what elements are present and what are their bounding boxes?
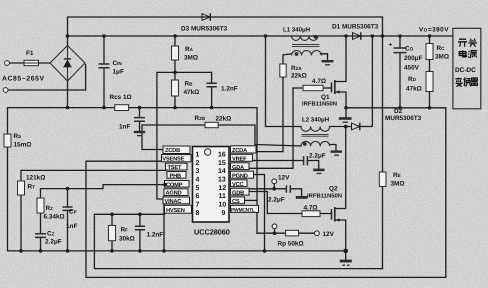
node Cz bottom on ground rail <box>39 249 43 253</box>
node pin label HVSEN <box>165 205 192 214</box>
inductor L1 primary winding <box>292 36 320 46</box>
node L1 primary polarity dot <box>314 35 318 39</box>
node Rb bottom on rail <box>173 106 177 110</box>
wire Q2 drain up to L2 D2 node <box>335 127 346 209</box>
resistor R1 <box>18 181 25 195</box>
wire VCC line with 12V tap and 2.2uF cap to ground <box>247 189 302 196</box>
wire 1.2nF HVSEN cap leads <box>139 214 141 251</box>
wire right power return line <box>346 107 446 109</box>
svg-text:ZCDA: ZCDA <box>232 148 247 154</box>
svg-text:AC85~265V: AC85~265V <box>2 76 45 83</box>
wire Rf leads <box>111 214 113 251</box>
wire Re column from bus to HVSEN loop <box>382 36 384 269</box>
node pin label AGND <box>164 189 188 197</box>
capacitor 2.2uF VCC <box>286 185 290 193</box>
svg-text:+: + <box>389 42 393 49</box>
svg-text:PHB: PHB <box>170 173 182 179</box>
resistor Rp <box>286 230 299 236</box>
svg-text:MUR5306T3: MUR5306T3 <box>385 115 422 122</box>
ground Q1 source <box>339 119 352 123</box>
transistor Q2 <box>332 207 340 222</box>
capacitor Co <box>394 48 407 53</box>
node R1 bottom on ground rail <box>19 249 23 253</box>
svg-text:Q1: Q1 <box>321 94 330 101</box>
wire D3 bypass top bus from bridge top to output node <box>68 17 383 46</box>
svg-text:1: 1 <box>196 151 200 158</box>
svg-text:11: 11 <box>219 193 226 200</box>
svg-text:47kΩ: 47kΩ <box>406 86 422 93</box>
wire Cp leads <box>67 189 69 251</box>
capacitor 1.2nF HVSEN <box>135 226 145 230</box>
ground L1 zcd winding <box>322 61 334 65</box>
diode D1 <box>353 32 361 40</box>
node Rc top on bus <box>428 34 432 38</box>
wire TSET R1 line <box>21 170 166 251</box>
value label DC-DC converter chinese text guan <box>468 39 477 47</box>
resistor Rc <box>426 44 433 60</box>
node Rd bottom on power return <box>428 106 432 110</box>
wire VSENSE to bottom sense loop via output return <box>86 108 446 278</box>
wire Q2 source down to ground rail end <box>335 220 346 251</box>
node pin label CS <box>231 197 245 205</box>
node pin label TSET <box>166 163 188 171</box>
node L1 zcd polarity dot <box>295 52 299 56</box>
svg-text:RB: RB <box>185 81 194 88</box>
svg-text:22kΩ: 22kΩ <box>216 116 232 123</box>
node pin label PHB <box>167 172 186 180</box>
box DC-DC converter <box>453 28 481 109</box>
wire PGND drop to ground rail <box>254 175 265 251</box>
svg-text:14: 14 <box>218 168 226 175</box>
wire Co leads <box>399 36 401 108</box>
node Ra Rb divider junction <box>173 71 177 75</box>
ground VREF cap <box>313 170 324 174</box>
wire Q1 source ground stub <box>345 108 347 117</box>
node L2 zcd polarity dot <box>303 142 307 146</box>
wire 12V terminal stub to VCC <box>273 184 275 189</box>
svg-text:RT: RT <box>28 184 36 191</box>
svg-text:RZB: RZB <box>195 115 206 122</box>
wire CS pin stub <box>245 199 258 201</box>
bridge rectifier <box>50 46 85 82</box>
resistor Rb <box>172 80 179 96</box>
node Co bottom on power return <box>398 106 402 110</box>
svg-text:5: 5 <box>196 185 200 192</box>
svg-text:RS: RS <box>14 133 22 140</box>
capacitor 1nF CS filter <box>134 118 145 122</box>
resistor Rf <box>109 225 116 240</box>
node D2 cathode on bus <box>371 34 375 38</box>
svg-text:3MΩ: 3MΩ <box>391 181 405 188</box>
svg-text:7: 7 <box>196 202 200 209</box>
value label DC-DC converter chinese text dian <box>459 50 466 57</box>
wire AC neutral terminal to bridge right vertex <box>8 65 86 91</box>
wire AC hot terminal to fuse to bridge <box>9 62 50 64</box>
node Q1 source on power return <box>344 106 348 110</box>
fuse F1 <box>24 60 39 65</box>
node pin label VCC <box>231 180 248 188</box>
svg-text:ZCDB: ZCDB <box>165 148 180 154</box>
svg-text:DC-DC: DC-DC <box>455 67 476 74</box>
svg-text:RZA: RZA <box>291 65 302 72</box>
svg-text:L1 340μH: L1 340μH <box>283 27 310 34</box>
wire VREF to 2.2uF cap and ground <box>253 161 319 169</box>
svg-text:VINAC: VINAC <box>165 199 182 205</box>
svg-text:L2 340μH: L2 340μH <box>302 116 329 123</box>
wire PWMCNTL Rp pullup to 12V <box>257 232 314 234</box>
wire 1.2nF divider cap leads <box>211 72 213 107</box>
capacitor Cp <box>63 207 73 210</box>
resistor Rcs <box>115 105 129 111</box>
node Cin bottom on rail <box>102 106 106 110</box>
op-amp U1 UCC28060 IC body <box>193 147 230 223</box>
svg-text:1.2nF: 1.2nF <box>221 86 238 93</box>
svg-text:6.34kΩ: 6.34kΩ <box>44 214 65 221</box>
node Cin top on bus <box>102 34 106 38</box>
node 12V tap on VCC wire <box>272 187 276 191</box>
wire L2 zcd winding right end to ground <box>330 145 337 151</box>
wire Ra Rb divider column <box>174 36 176 108</box>
node bridge return on rail <box>66 106 70 110</box>
svg-text:UCC28060: UCC28060 <box>194 227 230 236</box>
svg-text:15mΩ: 15mΩ <box>14 142 32 149</box>
node 1.2nF bottom on rail <box>210 106 214 110</box>
capacitor 2.2uF VREF <box>304 156 308 165</box>
svg-text:F1: F1 <box>26 50 34 57</box>
node pin label PGND <box>231 171 254 179</box>
capacitor 1.2nF VINAC <box>206 83 216 87</box>
resistor Rz <box>37 198 44 213</box>
terminal AC input top <box>5 61 10 66</box>
node pin label COMP <box>165 181 190 189</box>
svg-text:GDA: GDA <box>232 165 244 171</box>
svg-text:3MΩ: 3MΩ <box>184 55 198 62</box>
wire ZCDA through Rza to L1 zcd winding <box>256 54 292 152</box>
node Cp top on COMP wire <box>66 187 70 191</box>
svg-text:PWMCNTL: PWMCNTL <box>231 208 255 214</box>
wire GDA to Q1 gate resistor <box>249 88 332 168</box>
node Ra top on bus <box>173 34 177 38</box>
wire ZCDB to Rzb to L2 zcd winding <box>142 125 301 150</box>
resistor Re <box>379 172 386 187</box>
wire L2 feed from bus and primary to D2 <box>266 36 373 127</box>
node pin label PWMCNTL <box>231 205 259 213</box>
pin numbers U1 right <box>218 151 226 217</box>
node PGND on ground rail <box>263 249 267 253</box>
svg-text:RF: RF <box>121 227 129 234</box>
resistor Rd <box>426 72 433 92</box>
wire PWMCNTL test point stub <box>274 229 276 234</box>
node Cp bottom on ground rail <box>66 249 70 253</box>
wire CS 1nF filter leads <box>139 108 141 131</box>
node pin label VSENSE <box>162 155 192 163</box>
svg-text:CO: CO <box>405 46 414 53</box>
svg-text:D1 MUR5306T3: D1 MUR5306T3 <box>332 24 379 31</box>
node Rf bottom on ground rail <box>110 249 114 253</box>
svg-text:2.2μF: 2.2μF <box>268 197 285 204</box>
wire GDB to Q2 gate resistor <box>246 192 332 214</box>
svg-text:450V: 450V <box>404 65 420 72</box>
svg-text:1nF: 1nF <box>119 124 130 131</box>
node pin label VREF <box>231 154 253 162</box>
inductor L1 zcd winding <box>292 51 322 56</box>
resistor 4.7 ohm gate B <box>302 211 320 217</box>
ground VCC cap <box>296 196 308 199</box>
terminal AC input bottom <box>3 88 8 93</box>
svg-text:2.2μF: 2.2μF <box>45 239 62 246</box>
svg-text:IRFB11N50N: IRFB11N50N <box>307 193 342 200</box>
svg-text:3: 3 <box>196 168 200 175</box>
svg-text:9: 9 <box>222 210 226 217</box>
svg-text:30kΩ: 30kΩ <box>119 236 135 243</box>
node COMP pin junction <box>163 183 167 187</box>
resistor Rzb <box>205 122 218 127</box>
svg-text:VO=390V: VO=390V <box>419 27 449 34</box>
svg-text:CIN: CIN <box>113 60 123 67</box>
wire left return through Rs to bottom analog ground rail <box>8 108 346 251</box>
value label DC-DC converter chinese text kai <box>458 39 467 46</box>
svg-text:PGND: PGND <box>232 173 248 179</box>
node 1.2nF bottom on ground rail <box>138 249 142 253</box>
value label DC-DC converter chinese text huan <box>463 77 470 86</box>
node CS sense 1nF on rail <box>138 106 142 110</box>
svg-text:RA: RA <box>185 46 194 53</box>
wire L2 zcd winding left to ZCDA pin row <box>255 144 256 146</box>
wire VINAC node line and drop to pin 7 <box>157 72 212 199</box>
svg-text:IRFB11N50N: IRFB11N50N <box>302 101 337 108</box>
wire L1 zcd winding right end to ground <box>321 54 328 60</box>
svg-text:VREF: VREF <box>232 156 247 162</box>
svg-text:GDB: GDB <box>232 190 244 196</box>
node pin label ZCDB <box>163 146 190 154</box>
svg-text:RC: RC <box>437 45 446 52</box>
svg-text:D2: D2 <box>394 108 403 115</box>
svg-text:TSET: TSET <box>168 165 182 171</box>
node pin label ZCDA <box>231 146 257 154</box>
wire HVSEN line with Rf filter <box>94 214 382 268</box>
ground main rail end <box>340 261 352 265</box>
svg-text:200μF: 200μF <box>404 55 423 62</box>
terminal 12V VCC <box>272 179 277 184</box>
transistor Q1 <box>332 80 340 94</box>
wire main rectified bus y=36 <box>68 35 453 37</box>
node Q2 drain on L2 D2 wire <box>344 125 348 129</box>
svg-text:VCC: VCC <box>232 182 244 188</box>
node D3 cathode and Re on bus <box>381 34 385 38</box>
svg-text:D3 MUR5306T3: D3 MUR5306T3 <box>181 26 228 33</box>
svg-text:4.7Ω: 4.7Ω <box>304 205 318 212</box>
node Co top on bus <box>398 34 402 38</box>
value label DC-DC converter chinese text bian <box>455 78 462 87</box>
svg-text:1nF: 1nF <box>66 223 77 230</box>
svg-text:1μF: 1μF <box>113 69 124 76</box>
svg-text:CZ: CZ <box>47 231 55 238</box>
resistor Ra <box>172 46 179 60</box>
svg-text:12: 12 <box>219 185 227 192</box>
svg-text:15: 15 <box>218 160 226 167</box>
svg-text:CP: CP <box>69 209 77 216</box>
svg-text:Rcs 1Ω: Rcs 1Ω <box>110 94 132 101</box>
svg-text:10: 10 <box>219 202 227 209</box>
wire Rc Rd output divider column <box>429 36 431 108</box>
node test point on PWMCNTL wire <box>273 231 277 235</box>
svg-text:22kΩ: 22kΩ <box>291 73 307 80</box>
terminal PWMCNTL test point <box>272 224 277 229</box>
node Q1 drain on bus <box>344 34 348 38</box>
node Rf top on HVSEN wire <box>110 213 114 217</box>
svg-text:4.7Ω: 4.7Ω <box>312 78 326 85</box>
value label DC-DC converter chinese text qi <box>471 78 478 85</box>
wire ground symbol stub at rail end <box>345 251 347 260</box>
svg-text:Rp 50kΩ: Rp 50kΩ <box>278 241 304 248</box>
svg-text:CS: CS <box>232 199 240 205</box>
node pin label GDB <box>231 188 250 196</box>
terminal 12V Rp <box>315 231 320 236</box>
resistor Rza <box>280 64 286 77</box>
node L2 feed on bus <box>264 34 268 38</box>
svg-text:RZ: RZ <box>46 205 54 212</box>
wire COMP network to pin 5 <box>41 185 165 251</box>
node 1.2nF top on HVSEN wire <box>138 213 142 217</box>
svg-text:2: 2 <box>196 160 200 167</box>
pin numbers U1 left <box>196 151 200 217</box>
svg-text:COMP: COMP <box>166 182 183 188</box>
resistor Rs <box>4 134 11 147</box>
svg-text:Q2: Q2 <box>329 186 338 193</box>
svg-text:6: 6 <box>196 193 200 200</box>
wire Q1 source to power return <box>335 92 346 108</box>
svg-text:RE: RE <box>393 172 401 179</box>
node bridge output on bus <box>66 34 70 38</box>
node Q2 source at ground rail end <box>343 249 348 254</box>
svg-text:4: 4 <box>196 177 200 184</box>
svg-text:RD: RD <box>408 76 417 83</box>
ground L2 zcd winding <box>331 152 343 156</box>
svg-text:12V: 12V <box>323 231 335 238</box>
svg-text:12V: 12V <box>278 175 290 182</box>
svg-text:VSENSE: VSENSE <box>162 157 184 163</box>
diode D2 <box>352 123 360 131</box>
svg-text:2.2μF: 2.2μF <box>309 153 326 160</box>
diode D3 <box>202 13 210 21</box>
svg-text:3MΩ: 3MΩ <box>435 54 449 61</box>
svg-text:8: 8 <box>196 210 200 217</box>
node AGND on ground rail <box>162 249 166 253</box>
svg-text:HVSEN: HVSEN <box>166 208 185 214</box>
svg-text:13: 13 <box>218 177 226 184</box>
svg-text:47kΩ: 47kΩ <box>184 89 200 96</box>
svg-text:1.2nF: 1.2nF <box>147 232 164 239</box>
capacitor Cin <box>99 64 110 68</box>
capacitor Cz <box>35 234 46 238</box>
svg-text:121kΩ: 121kΩ <box>26 175 45 182</box>
svg-text:AGND: AGND <box>166 191 182 197</box>
value label DC-DC converter chinese text yuan <box>468 51 477 59</box>
wire AGND drop to ground rail <box>163 196 165 251</box>
node pin label GDA <box>231 163 250 171</box>
wire Q1 drain to bus <box>335 36 346 82</box>
wire Cin leads <box>103 36 105 108</box>
resistor 4.7 ohm gate A <box>303 85 323 90</box>
ground 1nF <box>134 132 145 136</box>
inductor L2 primary winding <box>301 127 330 137</box>
wire return rail from bridge bottom through Rcs to CS column <box>68 81 258 233</box>
inductor L2 zcd winding <box>301 141 330 146</box>
node pin label VINAC <box>163 197 190 205</box>
svg-text:16: 16 <box>218 151 226 158</box>
